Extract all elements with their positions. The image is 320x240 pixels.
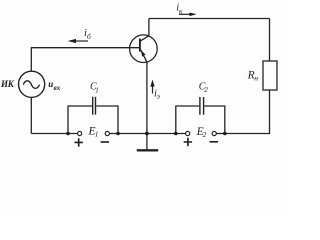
svg-text:вх: вх: [54, 84, 61, 92]
wire: bottom rail between E2 and emitter node: [147, 133, 186, 135]
current arrow i_k (collector): [179, 13, 197, 17]
battery E1 right terminal: [105, 131, 109, 135]
svg-text:б: б: [87, 32, 91, 41]
polarity - of E2: [210, 141, 218, 143]
transistor Q1 emitter arrowhead (PNP): [141, 50, 146, 57]
transistor Q1 emitter wire down to bottom rail: [146, 62, 148, 133]
capacitor C1 plates: [93, 97, 96, 115]
AC source sine wave: [23, 81, 39, 89]
transistor Q1 collector wire: [148, 19, 150, 36]
ground lead: [146, 134, 148, 150]
wire: bottom rail E2-right to E2 terminal: [216, 133, 225, 135]
transistor Q1 collector diagonal: [140, 36, 149, 42]
transistor Q1 base bar: [139, 39, 141, 52]
current arrow i_b (base): [68, 39, 88, 43]
svg-text:2: 2: [204, 86, 208, 94]
resistor Rн: [263, 61, 277, 90]
capacitor C2 branch right vertical: [204, 106, 225, 134]
wire: top horizontal (collector to Rн): [149, 18, 270, 20]
svg-text:1: 1: [95, 86, 99, 94]
svg-text:u: u: [48, 79, 53, 89]
svg-text:н: н: [254, 74, 258, 83]
junction dot left of E1: [66, 132, 70, 136]
svg-text:ИК: ИК: [0, 79, 15, 89]
polarity + of E1: [75, 138, 83, 146]
battery E2 right terminal: [212, 131, 216, 135]
capacitor C2 plates: [200, 97, 204, 115]
junction dot emitter/ground node: [145, 132, 149, 136]
junction dot right of E1: [116, 132, 120, 136]
ground bar: [137, 149, 158, 151]
capacitor C1 branch right vertical: [96, 106, 118, 134]
junction dot left of E2: [174, 132, 178, 136]
transistor Q1 emitter diagonal: [140, 49, 147, 63]
current arrow i_e (emitter): [150, 80, 154, 94]
svg-text:к: к: [179, 6, 183, 15]
battery E1 left terminal: [78, 131, 82, 135]
wire: bottom rail E1 left terminal to left corner: [31, 133, 77, 135]
svg-text:1: 1: [95, 130, 99, 139]
capacitor C1 branch left vertical: [68, 106, 92, 134]
transistor Q1 circle: [130, 35, 158, 63]
svg-text:2: 2: [203, 130, 207, 139]
wire: Rн bottom down to bottom rail: [225, 90, 270, 134]
polarity + of E2: [184, 138, 192, 146]
wire: bottom rail between emitter node and E1 right: [109, 133, 146, 135]
capacitor C2 branch left vertical: [176, 106, 199, 134]
wire: right vertical from top wire to Rн: [269, 19, 271, 62]
polarity - of E1: [101, 141, 109, 143]
junction dot right of E2: [223, 132, 227, 136]
battery E2 left terminal: [186, 131, 190, 135]
AC source VK circle: [19, 71, 45, 97]
wire: AC source top up and right to transistor base: [31, 48, 140, 71]
wire: left vertical up to AC source: [30, 97, 32, 133]
